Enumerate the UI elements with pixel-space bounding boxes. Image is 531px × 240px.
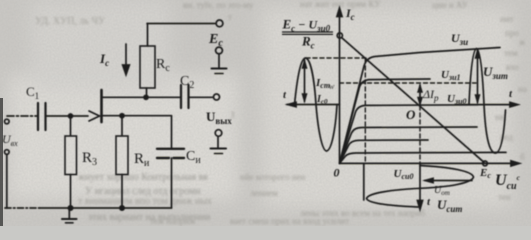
svg-text:вхо: вхо	[506, 62, 519, 72]
svg-text:УД. ХУП, ль ЧУ: УД. ХУП, ль ЧУ	[35, 16, 106, 27]
svg-text:w: w	[329, 82, 335, 91]
svg-text:вает смеш прих на вход усилит: вает смеш прих на вход усилит	[230, 216, 349, 226]
svg-text:нйе которого нен: нйе которого нен	[240, 172, 306, 182]
svg-text:ции и АУ: ции и АУ	[432, 0, 468, 10]
svg-text:нит: нит	[500, 14, 514, 24]
svg-text:про: про	[505, 28, 519, 38]
svg-text:тен: тен	[498, 192, 511, 202]
svg-text:б: б	[520, 152, 525, 162]
svg-text:на: на	[518, 84, 527, 94]
svg-text:0: 0	[334, 166, 340, 180]
svg-text:ж: ж	[518, 37, 526, 47]
svg-text:лением: лением	[250, 188, 278, 198]
svg-text:O: O	[406, 107, 416, 122]
svg-text:вн. туře, по это-му: вн. туře, по это-му	[183, 0, 254, 10]
svg-text:нат жит ент прям КУ: нат жит ент прям КУ	[300, 0, 381, 9]
svg-text:т вниманием впо том движ ных: т вниманием впо том движ ных	[78, 196, 212, 207]
svg-text:теж наприж: теж наприж	[150, 216, 196, 226]
svg-text:т: т	[228, 12, 232, 22]
svg-text:тем: тем	[504, 48, 518, 58]
svg-text:жнует хорошо Контрольная вя: жнует хорошо Контрольная вя	[77, 172, 208, 183]
svg-text:ня: ня	[495, 112, 504, 122]
